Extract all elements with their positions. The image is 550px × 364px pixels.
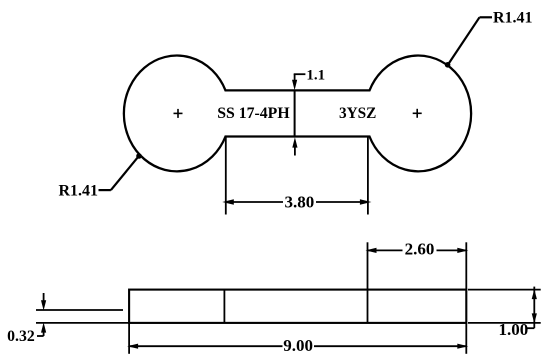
side view segment line left: [223, 290, 225, 323]
material interface line: [294, 90, 296, 136]
dimension 0.32: [7, 293, 129, 345]
svg-text:SS 17-4PH: SS 17-4PH: [217, 105, 290, 122]
svg-text:3YSZ: 3YSZ: [339, 105, 376, 122]
specimen top view dog-bone outline: [124, 56, 471, 172]
center mark left (+): [174, 109, 183, 118]
svg-text:1.00: 1.00: [498, 320, 528, 339]
svg-text:R1.41: R1.41: [493, 10, 533, 27]
svg-text:2.60: 2.60: [405, 240, 435, 259]
leader R1.41 bottom left: [58, 153, 141, 199]
svg-text:R1.41: R1.41: [58, 182, 98, 199]
leader R1.41 top right: [445, 10, 533, 68]
dimension 1.00: [468, 287, 541, 339]
specimen side view bar outline: [129, 290, 466, 323]
dimension 1.1 (gauge thickness): [292, 67, 325, 155]
svg-text:3.80: 3.80: [285, 192, 315, 211]
svg-text:0.32: 0.32: [7, 328, 35, 345]
dimension 2.60: [366, 240, 469, 290]
svg-text:9.00: 9.00: [283, 336, 313, 355]
dimension 3.80 (gauge length): [222, 137, 371, 215]
dimension 9.00: [127, 323, 468, 355]
svg-text:1.1: 1.1: [306, 67, 325, 83]
side view segment line right / 2.60 left extension: [367, 242, 369, 323]
center mark right (+): [413, 109, 422, 118]
